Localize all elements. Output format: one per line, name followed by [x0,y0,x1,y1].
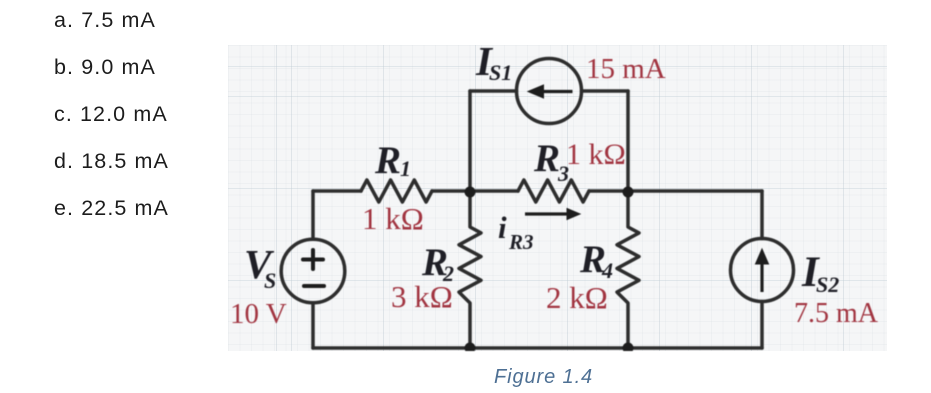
wire: IS2 bottom to bottom rail [760,302,764,349]
svg-text:3 kΩ: 3 kΩ [391,279,453,314]
svg-text:S: S [264,268,276,293]
svg-text:1 kΩ: 1 kΩ [362,201,424,236]
IS1 arrow (points left) [528,85,573,98]
bottom-right junction dot [623,343,634,354]
wire: Vs bottom to bottom rail [311,303,315,348]
svg-text:R: R [533,137,560,180]
wire: IS1 loop left vertical [468,91,472,191]
svg-text:1: 1 [400,156,411,181]
svg-text:R3: R3 [508,230,534,254]
bottom-left junction dot [465,343,476,354]
Vs plus sign [303,250,324,286]
wire: IS1 loop right vertical [626,91,630,191]
wire: IS1 loop top-left horizontal [470,89,517,93]
wire: mid horizontal right of R3 to right corner [589,189,762,193]
node A junction dot [465,187,476,198]
svg-text:1 kΩ: 1 kΩ [566,138,626,171]
resistor R4 [617,192,639,348]
caption [494,366,593,389]
voltage source Vs circle [281,239,345,303]
wire: left branch vertical (Vs top) [311,191,315,239]
resistor R2 [459,192,481,348]
wire: right branch down to IS2 [760,191,764,239]
wire: mid horizontal left segment [313,189,361,193]
Vs minus sign [304,284,324,288]
svg-text:10 V: 10 V [230,298,287,330]
wire: IS1 loop top-right horizontal [582,89,629,93]
current source IS1 circle [517,59,582,124]
resistor R3 [518,180,589,202]
resistor R1 [361,180,432,202]
node B junction dot [623,187,634,198]
svg-text:R: R [374,139,401,182]
current source IS2 circle [731,239,794,302]
IS2 arrow (points up) [756,249,769,292]
svg-text:S1: S1 [489,60,512,85]
wire: bottom rail [313,346,762,350]
svg-text:S2: S2 [816,272,839,297]
svg-text:15 mA: 15 mA [586,53,666,85]
iR3 arrow (points right) [525,209,580,220]
svg-text:7.5 mA: 7.5 mA [794,298,879,329]
wire: mid horizontal between R1 and R3 [432,189,518,193]
svg-text:i: i [498,210,507,245]
svg-text:2 kΩ: 2 kΩ [546,280,608,315]
